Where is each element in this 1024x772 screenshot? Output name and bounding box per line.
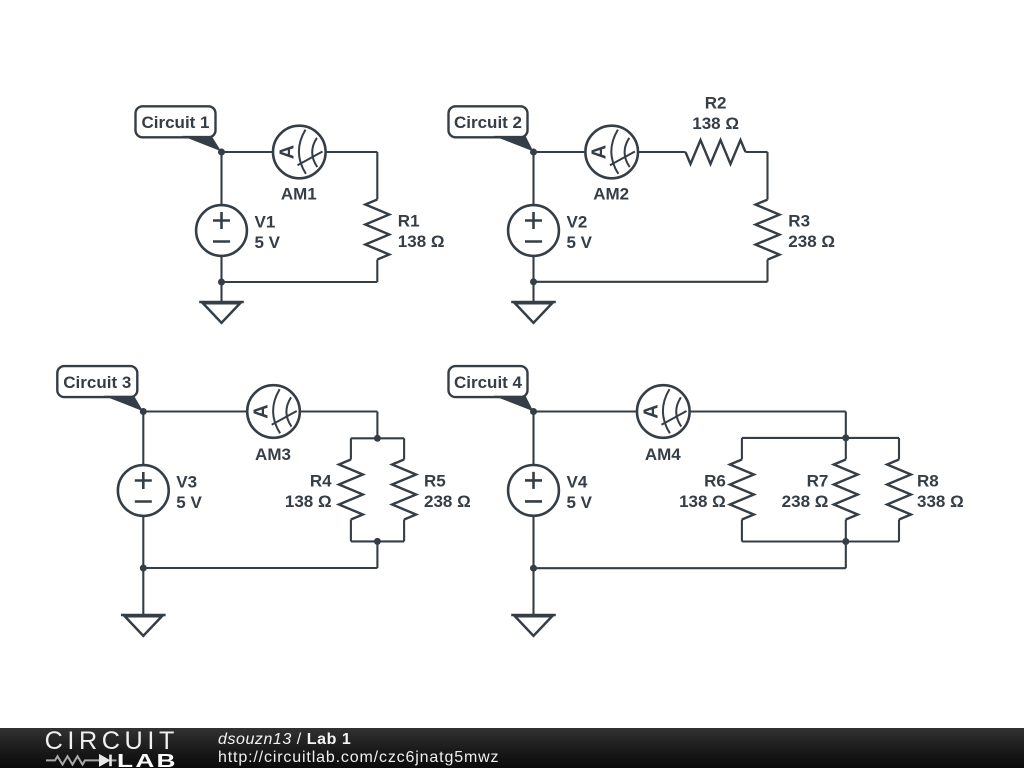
- svg-text:R2: R2: [705, 93, 727, 112]
- svg-text:V2: V2: [567, 212, 588, 231]
- svg-text:Circuit 3: Circuit 3: [63, 373, 131, 392]
- svg-text:R4: R4: [310, 471, 332, 490]
- svg-text:AM2: AM2: [593, 185, 629, 204]
- svg-text:238 Ω: 238 Ω: [782, 492, 829, 511]
- svg-text:R1: R1: [398, 211, 420, 230]
- svg-text:Circuit 2: Circuit 2: [454, 113, 522, 132]
- svg-text:5 V: 5 V: [567, 233, 593, 252]
- svg-text:R3: R3: [788, 211, 810, 230]
- svg-text:V1: V1: [255, 212, 276, 231]
- svg-text:338 Ω: 338 Ω: [917, 492, 964, 511]
- svg-text:AM3: AM3: [255, 445, 291, 464]
- svg-text:5 V: 5 V: [567, 493, 593, 512]
- svg-text:AM4: AM4: [645, 445, 681, 464]
- svg-text:138 Ω: 138 Ω: [398, 232, 445, 251]
- svg-text:Circuit 1: Circuit 1: [141, 113, 209, 132]
- svg-text:R6: R6: [704, 471, 726, 490]
- svg-text:138 Ω: 138 Ω: [692, 114, 739, 133]
- svg-text:238 Ω: 238 Ω: [424, 492, 471, 511]
- svg-text:238 Ω: 238 Ω: [788, 232, 835, 251]
- svg-text:138 Ω: 138 Ω: [679, 492, 726, 511]
- svg-text:R7: R7: [807, 471, 829, 490]
- svg-text:138 Ω: 138 Ω: [285, 492, 332, 511]
- svg-text:5 V: 5 V: [176, 493, 202, 512]
- svg-text:V3: V3: [176, 472, 197, 491]
- svg-text:5 V: 5 V: [255, 233, 281, 252]
- svg-text:R5: R5: [424, 471, 446, 490]
- svg-text:AM1: AM1: [281, 185, 317, 204]
- svg-text:R8: R8: [917, 471, 939, 490]
- svg-text:Circuit 4: Circuit 4: [454, 373, 523, 392]
- svg-text:V4: V4: [567, 472, 588, 491]
